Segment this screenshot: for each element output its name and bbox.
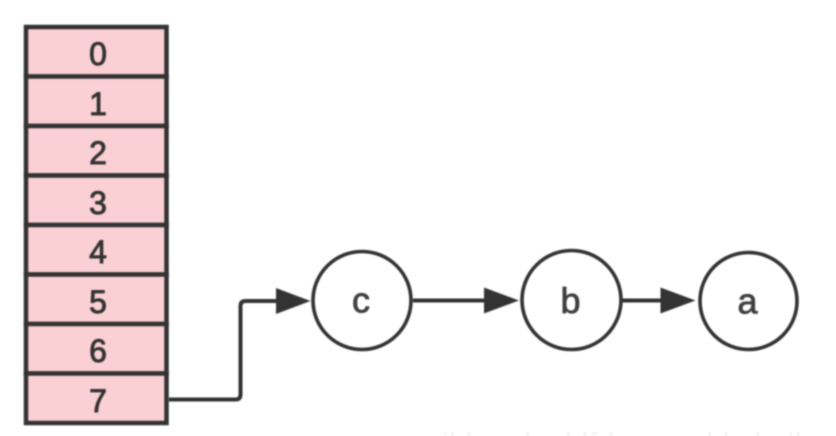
array bucket 1 — [26, 77, 167, 127]
node a — [700, 253, 797, 350]
svg-text:1: 1 — [89, 86, 107, 122]
array bucket 4 — [26, 225, 167, 275]
array bucket 6 — [26, 324, 167, 374]
svg-text:7: 7 — [89, 383, 107, 419]
array bucket 2 — [26, 126, 167, 176]
wire elbow connector bucket7 to node c — [169, 288, 311, 400]
svg-text:c: c — [352, 280, 370, 321]
svg-text:b: b — [560, 280, 580, 321]
array bucket 0 — [26, 27, 167, 77]
svg-text:a: a — [737, 281, 758, 322]
svg-text:ihl apdx ddf bmapu bhck dl: ihl apdx ddf bmapu bhck dl — [440, 427, 801, 436]
array bucket 7 — [26, 374, 167, 424]
svg-text:5: 5 — [89, 284, 107, 320]
array bucket 3 — [26, 176, 167, 226]
node b — [522, 251, 621, 350]
array bucket 5 — [26, 275, 167, 325]
svg-text:4: 4 — [89, 234, 107, 270]
arrow c to b — [413, 288, 519, 314]
node c — [313, 252, 411, 350]
arrow b to a — [623, 288, 696, 314]
svg-text:2: 2 — [89, 135, 107, 171]
svg-text:6: 6 — [89, 333, 107, 369]
svg-text:3: 3 — [89, 185, 107, 221]
svg-text:0: 0 — [89, 36, 107, 72]
